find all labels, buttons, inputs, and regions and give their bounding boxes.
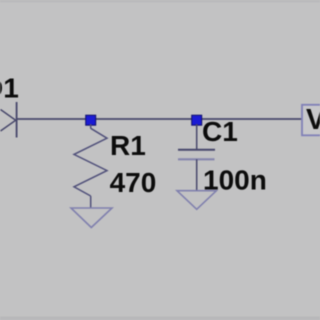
capacitor C1 bottom plate (178, 158, 215, 160)
svg-text:V: V (306, 104, 320, 136)
bottom edge shading strip (0, 317, 320, 320)
output box Vout (cut at right edge) (302, 105, 320, 136)
svg-text:470: 470 (110, 167, 157, 198)
ground under C1 (177, 191, 216, 210)
capacitor C1 top plate (178, 149, 215, 151)
ground under R1 (71, 208, 112, 228)
svg-text:D1: D1 (0, 72, 19, 103)
top edge shading strip (0, 0, 320, 3)
svg-text:C1: C1 (202, 116, 238, 147)
wire resistor bottom stub (90, 196, 92, 208)
diode D1 triangle (anode, partially off-frame) (1, 110, 16, 132)
wire main horizontal net (17, 118, 303, 120)
svg-text:R1: R1 (110, 130, 146, 161)
diode D1 cathode bar (16, 102, 18, 138)
node junction square at R1 (86, 115, 96, 125)
wire capacitor top stub (196, 124, 198, 150)
resistor R1 zigzag body (74, 128, 107, 196)
node junction square at C1 (192, 115, 202, 125)
wire resistor top stub (90, 124, 92, 129)
wire capacitor bottom stub (196, 159, 198, 190)
